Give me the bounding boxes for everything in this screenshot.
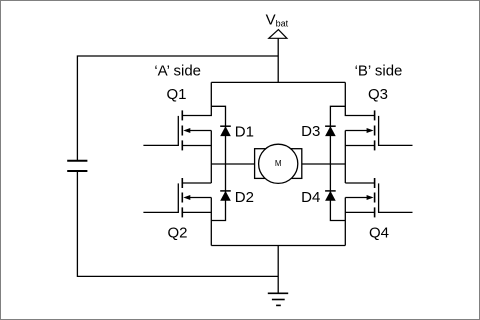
wire: Q2 source vertical to bottom rail [210,198,212,246]
wire: ground stem [277,246,279,294]
wire: Q1 source lead [182,145,211,147]
transistor Q1 [143,110,190,150]
wire: Q4 body lead [345,197,368,199]
wire: Q3 drain to top rail [345,82,374,115]
motor M circle [259,144,298,183]
wire: top rail [211,81,345,83]
svg-text:D2: D2 [235,189,254,206]
wire: phase B vertical [344,131,346,184]
svg-text:Q4: Q4 [369,225,389,242]
wire: Q1 drain to top rail [182,82,211,115]
wire: Vbat vertical [277,38,279,82]
wire: Q2 body lead [189,197,212,199]
diode D3 [325,126,336,136]
diode D2 [220,191,231,201]
transistor Q2 [143,178,190,217]
diode D1 [220,126,231,136]
svg-text:D4: D4 [301,189,320,206]
ground [268,293,288,305]
transistor Q3 [367,110,413,150]
wire: D3 branch from drain vertical [330,106,345,164]
svg-text:Q1: Q1 [166,86,186,103]
wire: Q4 source vertical to bottom rail [344,198,346,246]
wire: capacitor bottom to ground node [77,172,278,277]
wire: motor lead B [302,163,346,165]
wire: D2 vertical and anode jog [211,164,225,221]
diode D4 [325,191,336,201]
capacitor C1 plates [67,161,87,171]
wire: Q3 body lead [345,130,368,132]
wire: capacitor top to Vbat tee [77,56,278,160]
svg-text:D3: D3 [301,123,320,140]
wire: D1 branch from drain vertical [211,106,225,164]
wire: Q4 source lead [345,211,374,213]
wire: Q2 source lead [182,211,211,213]
svg-text:M: M [275,159,282,168]
wire: D4 vertical and anode jog [330,164,345,221]
transistor Q4 [367,178,413,217]
svg-text:‘A’ side: ‘A’ side [154,63,201,80]
wire: phase A vertical [210,131,212,184]
wire: Q4 drain lead [345,182,374,184]
wire: Q2 drain lead [182,182,211,184]
wire: Q3 source lead [345,145,374,147]
wire: motor lead A [211,163,254,165]
svg-text:‘B’ side: ‘B’ side [355,63,403,80]
motor M body [255,149,302,179]
Vbat supply triangle [269,30,287,39]
svg-text:Q3: Q3 [368,86,388,103]
svg-text:Q2: Q2 [167,225,187,242]
wire: Q1 body lead [189,130,212,132]
svg-text:D1: D1 [235,124,254,141]
wire: bottom rail [211,245,345,247]
